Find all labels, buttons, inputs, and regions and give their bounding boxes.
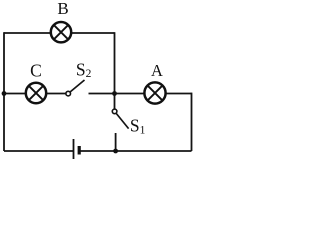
wire right vertical down to bottom-right corner: [191, 93, 193, 151]
battery positive plate (long): [73, 139, 75, 159]
node J1 junction dot (middle wire / S1 branch): [112, 91, 117, 96]
wire switch S1 fixed contact stub rising from bottom wire: [115, 133, 117, 151]
lamp C: [26, 83, 46, 103]
switch S1 blade (open): [116, 113, 128, 128]
wire from left vertical to lamp C: [4, 93, 26, 95]
wire bottom horizontal from bottom-left corner to battery positive plate: [4, 150, 74, 152]
node J3 junction dot (bottom wire / S1 stub): [113, 149, 118, 154]
node J2 junction dot (left wire / lamp C branch): [2, 91, 7, 96]
svg-text:S2: S2: [76, 60, 92, 81]
svg-text:A: A: [151, 61, 163, 80]
wire from node J1 to lamp A: [115, 93, 145, 95]
lamp A: [144, 82, 165, 103]
battery negative plate (short thick): [78, 146, 81, 155]
switch S1 pivot circle: [112, 109, 117, 114]
wire from lamp A to right vertical: [166, 93, 192, 95]
svg-text:S1: S1: [130, 116, 146, 137]
switch S2 pivot circle: [66, 91, 71, 96]
wire left vertical from top-left corner down to bottom-left corner: [3, 32, 5, 151]
wire from node J1 down to switch S1 pivot: [114, 94, 116, 110]
svg-text:C: C: [30, 61, 42, 81]
svg-text:B: B: [57, 0, 68, 18]
wire top horizontal from left corner to lamp B: [4, 32, 51, 34]
wire switch S2 fixed contact stub to node J1: [89, 93, 115, 95]
wire from lamp C to switch S2 pivot: [47, 93, 67, 95]
switch S2 blade (open): [70, 80, 84, 92]
wire bottom horizontal from battery negative plate to bottom-right corner: [81, 150, 192, 152]
wire middle vertical from top wire down to node J1: [114, 32, 116, 93]
wire top horizontal from lamp B to right corner: [72, 32, 115, 34]
lamp B: [51, 22, 71, 42]
